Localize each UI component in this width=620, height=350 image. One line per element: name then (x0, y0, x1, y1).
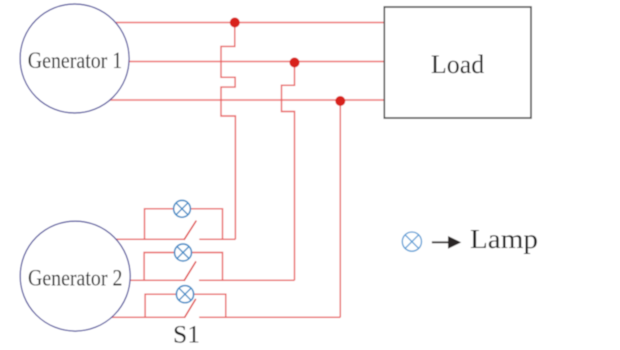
wire branch 2 main (Generator 2 phase b to wire B) (75, 279, 295, 281)
svg-text:Lamp: Lamp (470, 224, 538, 254)
generator G2 circle (20, 221, 130, 331)
wire phase line 1 (Generator 1 to Load) (75, 22, 384, 24)
legend lamp symbol (402, 232, 421, 251)
svg-text:Load: Load (431, 50, 484, 79)
switch S1 blade 3 (184, 299, 195, 318)
switch S1 blade 2 (184, 261, 196, 280)
wire branch 1 main (Generator 2 phase a to wire A) (75, 238, 236, 240)
wire branch 2 lamp loop (144, 253, 222, 281)
wire branch 3 main (Generator 2 phase c to wire C) (75, 316, 340, 318)
wire phase line 3 (Generator 1 to Load) (75, 99, 384, 101)
load box (384, 7, 531, 118)
wire A (from node A down to switch branch 1, with crossover jogs) (221, 23, 235, 240)
svg-text:Generator 2: Generator 2 (28, 266, 123, 292)
wire B (from node B down to switch branch 2, with crossover jog) (282, 63, 295, 281)
legend arrow (432, 236, 461, 249)
wire phase line 2 (Generator 1 to Load) (75, 61, 384, 63)
lamp L3 (176, 286, 193, 303)
switch S1 blade 1 (184, 221, 196, 240)
lamp L2 (175, 244, 192, 261)
lamp L1 (174, 200, 191, 217)
node A junction dot (230, 18, 240, 28)
wire branch 3 lamp loop (145, 294, 226, 317)
node B junction dot (290, 58, 300, 68)
node C junction dot (335, 96, 345, 106)
generator G1 circle (20, 4, 129, 113)
svg-text:S1: S1 (173, 322, 200, 349)
wire branch 1 lamp loop (145, 209, 223, 240)
wire C (from node C down to switch branch 3) (339, 101, 341, 317)
svg-text:Generator 1: Generator 1 (28, 48, 123, 74)
